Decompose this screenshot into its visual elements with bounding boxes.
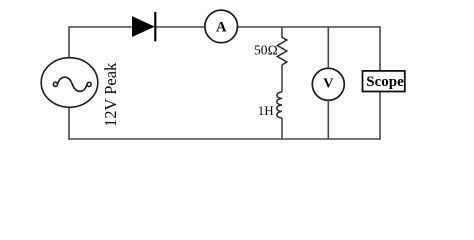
label 50ohm xyxy=(254,42,278,57)
wire diode-to-ammeter segment xyxy=(155,26,205,28)
wire resistor branch top stub xyxy=(281,27,283,38)
wire voltmeter branch bottom segment xyxy=(327,100,329,139)
wire right vertical lower segment xyxy=(379,92,381,140)
wire left vertical lower segment xyxy=(68,108,70,140)
svg-text:V: V xyxy=(323,77,333,92)
wire bottom segment xyxy=(69,138,381,140)
svg-text:Scope: Scope xyxy=(366,74,404,90)
svg-text:1H: 1H xyxy=(258,103,274,118)
wire top-left segment xyxy=(69,26,133,28)
wire resistor-to-inductor segment xyxy=(281,65,283,93)
svg-text:12V Peak: 12V Peak xyxy=(101,62,120,127)
wire inductor bottom stub xyxy=(281,118,283,139)
resistor 50ohm xyxy=(277,37,287,65)
label 12V Peak xyxy=(101,62,120,127)
svg-text:A: A xyxy=(216,19,227,35)
label 1H xyxy=(258,103,274,118)
diode D1 xyxy=(132,12,155,41)
inductor 1H xyxy=(277,92,282,118)
wire voltmeter branch top segment xyxy=(327,27,329,69)
wire right vertical upper segment xyxy=(379,26,381,71)
ammeter A1 xyxy=(205,10,238,43)
svg-text:50Ω: 50Ω xyxy=(254,42,278,57)
wire ammeter-to-top-right segment xyxy=(237,26,380,28)
voltmeter V1 xyxy=(312,68,344,100)
wire left vertical upper segment xyxy=(68,26,70,58)
AC source V1 xyxy=(41,58,98,108)
scope box xyxy=(363,71,405,92)
